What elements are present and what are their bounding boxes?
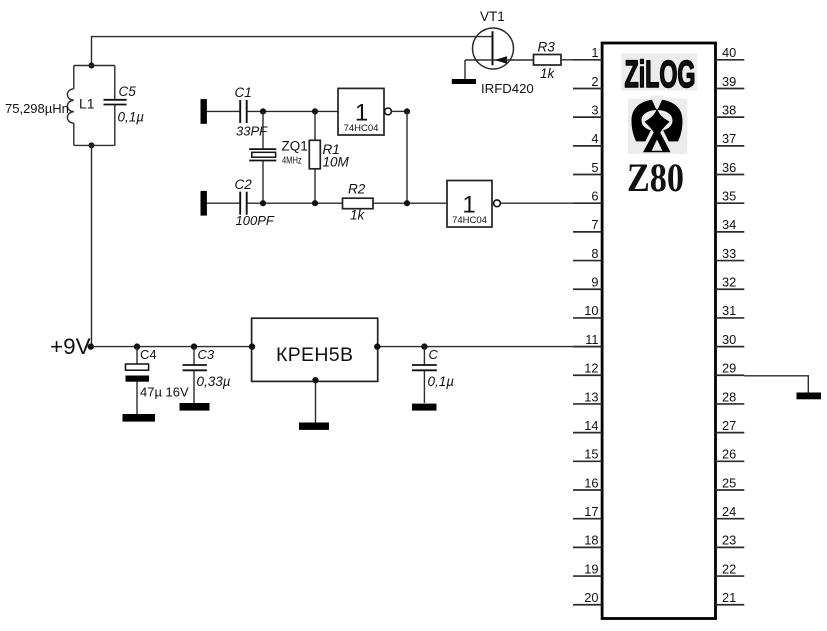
pin 2 lead and number [573, 74, 602, 89]
node junction L1 bottom [89, 142, 95, 148]
wire L1 bottom to +9V rail [91, 145, 93, 346]
pin 20 lead and number [573, 590, 602, 605]
inverter U1 74HC04 [338, 88, 384, 135]
pin 6 lead and number [573, 189, 602, 204]
pin 5 lead and number [573, 160, 602, 175]
wire U2 output to Z80 pin 6 [500, 202, 601, 204]
svg-text:0,33µ: 0,33µ [197, 374, 231, 389]
U1 output inversion bubble [385, 108, 392, 115]
node junction C4 [134, 343, 140, 349]
svg-text:1: 1 [591, 45, 598, 60]
ground VT1 source [452, 79, 476, 84]
pin 10 lead and number [573, 303, 602, 318]
wire C2 to R2 [248, 202, 343, 204]
resistor R1 [309, 140, 320, 169]
wire C3 bottom lead [193, 371, 195, 403]
wire U1 output [391, 110, 407, 112]
pin 38 lead and number [716, 102, 745, 117]
svg-text:34: 34 [722, 217, 736, 232]
pin 37 lead and number [716, 131, 745, 146]
capacitor C3 [183, 365, 207, 370]
svg-text:3: 3 [591, 102, 598, 117]
pin 8 lead and number [573, 246, 602, 261]
svg-text:+9V: +9V [50, 334, 91, 359]
pin 12 lead and number [573, 361, 602, 376]
pin 22 lead and number [716, 561, 745, 576]
svg-text:R2: R2 [348, 182, 366, 197]
svg-text:40: 40 [722, 45, 736, 60]
wire top rail from L1 tank to VT1 gate [92, 37, 493, 66]
pin 4 lead and number [573, 131, 602, 146]
svg-text:4MHz: 4MHz [282, 154, 302, 165]
svg-text:5: 5 [591, 160, 598, 175]
svg-text:C: C [429, 347, 439, 362]
pin 3 lead and number [573, 102, 602, 117]
svg-text:9: 9 [591, 275, 598, 290]
svg-text:ZiLOG: ZiLOG [625, 54, 696, 96]
svg-text:12: 12 [584, 361, 598, 376]
svg-text:10: 10 [584, 303, 598, 318]
svg-text:IRFD420: IRFD420 [481, 81, 534, 96]
svg-text:24: 24 [722, 504, 736, 519]
svg-text:КРЕН5В: КРЕН5В [276, 344, 353, 366]
wire C top lead [423, 347, 425, 365]
svg-text:R3: R3 [538, 40, 556, 55]
resistor R3 [534, 55, 562, 66]
svg-text:8: 8 [591, 246, 598, 261]
svg-text:1k: 1k [540, 66, 556, 81]
Zilog logo wordmark [621, 54, 697, 97]
pin 13 lead and number [573, 389, 602, 404]
svg-text:4: 4 [591, 131, 598, 146]
wire R3 to Z80 pin 1 [561, 59, 602, 61]
ground C3 [180, 403, 210, 411]
pin 14 lead and number [573, 418, 602, 433]
svg-text:22: 22 [722, 561, 736, 576]
svg-text:47µ 16V: 47µ 16V [140, 385, 189, 400]
U2 output inversion bubble [494, 200, 501, 207]
svg-text:27: 27 [722, 418, 736, 433]
svg-text:31: 31 [722, 303, 736, 318]
wire R1 bottom lead [314, 169, 316, 203]
wire Z80 pin 29 to ground [744, 376, 808, 393]
capacitor C4 electrolytic [126, 364, 150, 382]
svg-text:100PF: 100PF [236, 213, 275, 228]
pin 16 lead and number [573, 475, 602, 490]
node junction C [421, 343, 427, 349]
pin 30 lead and number [716, 332, 745, 347]
wire C4 bottom lead [136, 382, 138, 414]
pin 33 lead and number [716, 246, 745, 261]
svg-text:10M: 10M [323, 155, 350, 170]
svg-text:25: 25 [722, 475, 736, 490]
svg-text:75,298µHn: 75,298µHn [5, 101, 69, 116]
svg-text:11: 11 [585, 332, 598, 347]
node regulator output [374, 343, 380, 349]
svg-text:14: 14 [584, 418, 598, 433]
pin 17 lead and number [573, 504, 602, 519]
svg-text:2: 2 [591, 74, 598, 89]
svg-text:26: 26 [722, 447, 736, 462]
capacitor C5 [104, 66, 127, 146]
svg-text:20: 20 [584, 590, 598, 605]
svg-text:7: 7 [591, 217, 598, 232]
pin 29 lead and number [716, 361, 745, 376]
svg-text:C5: C5 [119, 84, 137, 99]
inverter U2 74HC04 [447, 181, 492, 228]
svg-text:38: 38 [722, 102, 736, 117]
pin 36 lead and number [716, 160, 745, 175]
wire +9V power rail to Z80 pin 11 [91, 346, 602, 348]
ground terminal at C2 [201, 191, 207, 216]
svg-text:0,1µ: 0,1µ [118, 110, 145, 125]
pin 32 lead and number [716, 275, 745, 290]
ground terminal at C1 [201, 99, 207, 124]
svg-text:C1: C1 [235, 85, 252, 100]
wire C1 to U1 input [248, 110, 338, 112]
svg-text:18: 18 [584, 533, 598, 548]
svg-text:1k: 1k [350, 208, 366, 223]
svg-text:74HC04: 74HC04 [344, 123, 379, 134]
pin 28 lead and number [716, 389, 745, 404]
svg-text:19: 19 [584, 561, 598, 576]
svg-text:ZQ1: ZQ1 [282, 139, 308, 154]
svg-text:35: 35 [722, 189, 736, 204]
ground regulator [299, 423, 329, 430]
wire crystal bottom lead [262, 161, 264, 203]
pin 11 lead and number [573, 332, 602, 347]
pin 24 lead and number [716, 504, 745, 519]
wire R2 to U2 input [373, 202, 447, 204]
pin 18 lead and number [573, 533, 602, 548]
node junction C3 [191, 343, 197, 349]
node junction R1 top [312, 108, 318, 114]
capacitor C2 [240, 192, 247, 215]
svg-text:37: 37 [722, 131, 736, 146]
svg-text:C3: C3 [198, 347, 215, 362]
svg-text:0,1µ: 0,1µ [428, 374, 455, 389]
node junction R2 output feedback [404, 200, 410, 206]
pin 15 lead and number [573, 447, 602, 462]
svg-text:17: 17 [584, 504, 598, 519]
wire C bottom lead [423, 371, 425, 403]
svg-text:28: 28 [722, 389, 736, 404]
wire VT1 source to ground [464, 60, 466, 79]
svg-text:Z80: Z80 [627, 155, 684, 200]
crystal ZQ1 [249, 149, 276, 160]
wire terminal to C2 [207, 202, 240, 204]
svg-text:L1: L1 [79, 96, 95, 112]
wire feedback U1 output down to R2 node [406, 111, 408, 203]
pin 34 lead and number [716, 217, 745, 232]
svg-text:C4: C4 [140, 347, 157, 362]
resistor R2 [343, 198, 374, 209]
wire R1 top lead [314, 111, 316, 140]
node +9V junction [88, 343, 94, 349]
node junction crystal bottom [260, 200, 266, 206]
pin 35 lead and number [716, 189, 745, 204]
svg-text:16: 16 [584, 475, 598, 490]
pin 26 lead and number [716, 447, 745, 462]
transistor VT1 [465, 28, 534, 69]
svg-text:15: 15 [584, 447, 598, 462]
pin 19 lead and number [573, 561, 602, 576]
node junction L1 top [89, 63, 95, 69]
IC U3 Z80 body [602, 43, 715, 619]
Zilog emblem [628, 96, 687, 155]
svg-text:36: 36 [722, 160, 736, 175]
svg-text:33: 33 [722, 246, 736, 261]
wire C4 top lead [136, 347, 138, 364]
svg-text:6: 6 [591, 189, 598, 204]
capacitor C [412, 365, 437, 370]
wire terminal to C1 [207, 110, 240, 112]
pin 1 lead and number [573, 45, 602, 60]
capacitor C1 [240, 100, 247, 123]
svg-text:29: 29 [722, 361, 736, 376]
wire regulator common to ground [315, 382, 317, 423]
pin 21 lead and number [716, 590, 745, 605]
pin 7 lead and number [573, 217, 602, 232]
voltage regulator DA1 KREN5V [252, 318, 378, 381]
pin 25 lead and number [716, 475, 745, 490]
node junction crystal top [260, 108, 266, 114]
svg-text:74HC04: 74HC04 [452, 215, 487, 226]
pin 27 lead and number [716, 418, 745, 433]
ground C [412, 404, 437, 411]
svg-text:21: 21 [722, 590, 736, 605]
node regulator common pin [312, 377, 318, 383]
pin 9 lead and number [573, 275, 602, 290]
svg-text:VT1: VT1 [480, 9, 505, 24]
node regulator input [249, 343, 255, 349]
inductor L1 [67, 66, 114, 146]
pin 31 lead and number [716, 303, 745, 318]
node junction U1 output [404, 108, 410, 114]
svg-text:C2: C2 [235, 177, 253, 192]
svg-text:30: 30 [722, 332, 736, 347]
svg-text:13: 13 [584, 389, 598, 404]
svg-text:32: 32 [722, 275, 736, 290]
ground pin 29 [797, 393, 822, 400]
wire crystal top lead [262, 111, 264, 148]
ground C4 [123, 414, 156, 422]
pin 39 lead and number [716, 74, 745, 89]
svg-text:23: 23 [722, 533, 736, 548]
wire C3 top lead [193, 347, 195, 365]
svg-text:39: 39 [722, 74, 736, 89]
pin 40 lead and number [716, 45, 745, 60]
node junction R1 bottom [312, 200, 318, 206]
pin 23 lead and number [716, 533, 745, 548]
